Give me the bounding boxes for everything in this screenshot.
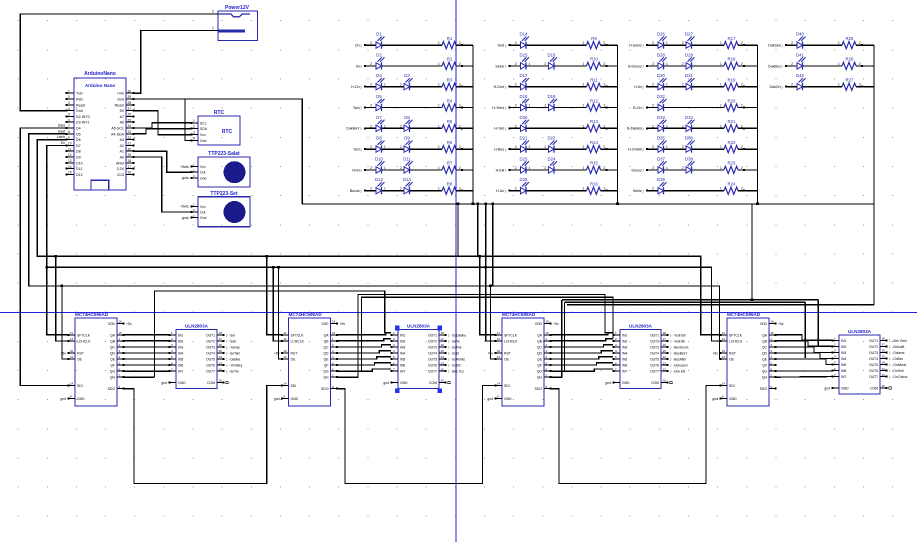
- svg-text:R7: R7: [447, 161, 453, 166]
- svg-text:OUT2: OUT2: [428, 339, 437, 343]
- svg-text:OUT1: OUT1: [206, 333, 215, 337]
- svg-text:D39: D39: [657, 177, 665, 182]
- svg-text:OUT7: OUT7: [650, 370, 659, 374]
- svg-text:SDO: SDO: [760, 387, 768, 391]
- svg-text:R21: R21: [728, 119, 736, 124]
- svg-text:1: 1: [666, 166, 668, 170]
- net label Latch: [57, 135, 65, 139]
- svg-text:1: 1: [68, 89, 70, 93]
- svg-text:R19: R19: [728, 78, 736, 83]
- svg-text:D42: D42: [796, 73, 804, 78]
- svg-text:GND: GND: [178, 381, 186, 385]
- svg-text:SDA: SDA: [200, 127, 208, 131]
- svg-text:GND: GND: [622, 381, 630, 385]
- svg-text:17: 17: [128, 165, 132, 169]
- svg-text:〉: 〉: [642, 43, 645, 48]
- svg-text:ULN2803A: ULN2803A: [185, 324, 209, 329]
- svg-text:12: 12: [663, 367, 667, 371]
- wire D5 bus L4: [29, 134, 720, 359]
- svg-text:A5-SCL: A5-SCL: [111, 127, 124, 131]
- svg-text:D18: D18: [520, 94, 528, 99]
- svg-text:4: 4: [68, 107, 70, 111]
- svg-text:2: 2: [791, 62, 793, 66]
- svg-text:〉: 〉: [505, 126, 508, 131]
- svg-text:D27: D27: [685, 32, 693, 37]
- svg-text:A4-SDA: A4-SDA: [111, 132, 125, 136]
- svg-text:〉: 〉: [505, 64, 508, 69]
- svg-text:14: 14: [722, 382, 726, 386]
- wire SDO#3 to SDI#4: [551, 386, 720, 484]
- svg-text:D32: D32: [657, 94, 665, 99]
- svg-text:SDI: SDI: [77, 384, 83, 388]
- svg-text:B-On: B-On: [633, 106, 641, 110]
- svg-text:D2: D2: [376, 52, 382, 57]
- wire arduino Gnd right rail: [134, 99, 302, 204]
- svg-text:B-Dakika: B-Dakika: [627, 127, 642, 131]
- svg-text:gndc: gndc: [182, 216, 190, 220]
- svg-text:IN7: IN7: [622, 370, 627, 374]
- svg-text:QH: QH: [323, 376, 329, 380]
- svg-text:R5: R5: [447, 119, 453, 124]
- svg-text:H-Dokuz: H-Dokuz: [628, 64, 642, 68]
- svg-text:D31: D31: [685, 73, 693, 78]
- svg-text:1: 1: [438, 62, 440, 66]
- svg-text:〉-OnYedi: 〉-OnYedi: [889, 369, 904, 373]
- svg-text:SFTCLK: SFTCLK: [291, 333, 305, 337]
- wires QA-QG to IN1-IN7 pair3: [551, 333, 613, 372]
- svg-text:1: 1: [583, 166, 585, 170]
- svg-text:16: 16: [663, 343, 667, 347]
- svg-text:IN2: IN2: [178, 339, 183, 343]
- svg-text:R20: R20: [728, 98, 736, 103]
- svg-text:〉-Bes Yuz: 〉-Bes Yuz: [448, 370, 464, 374]
- svg-text:QA: QA: [762, 333, 768, 337]
- svg-text:1: 1: [838, 62, 840, 66]
- svg-text:IN4: IN4: [841, 357, 846, 361]
- svg-text:1: 1: [583, 83, 585, 87]
- svg-text:〉-SoEl: 〉-SoEl: [448, 351, 459, 355]
- svg-text:14: 14: [663, 355, 667, 359]
- svg-text:COM: COM: [429, 381, 437, 385]
- svg-text:〉-SoSili: 〉-SoSili: [448, 364, 461, 368]
- svg-text:1: 1: [666, 41, 668, 45]
- svg-text:1: 1: [212, 26, 214, 30]
- svg-text:15: 15: [219, 349, 223, 353]
- shift register U6 MC74HC595AD #4: [712, 312, 784, 406]
- svg-text:2: 2: [370, 83, 372, 87]
- svg-text:2: 2: [682, 41, 684, 45]
- svg-text:gnd: gnd: [487, 397, 493, 401]
- svg-text:OUT5: OUT5: [206, 358, 215, 362]
- svg-text:Sekiz: Sekiz: [495, 64, 504, 68]
- svg-text:〉: 〉: [360, 126, 363, 131]
- svg-text:10: 10: [68, 142, 72, 146]
- svg-text:3.3V: 3.3V: [117, 167, 125, 171]
- LED group 1 (minutes) D1-D13 R1-R8: [346, 32, 473, 204]
- svg-text:ULN2803A: ULN2803A: [848, 329, 872, 334]
- svg-text:5V: 5V: [120, 109, 125, 113]
- svg-text:〉-OnBes: 〉-OnBes: [889, 357, 903, 361]
- svg-text:A6: A6: [120, 121, 124, 125]
- svg-text:2: 2: [652, 104, 654, 108]
- svg-text:+5vdc: +5vdc: [180, 205, 189, 209]
- svg-text:R16: R16: [590, 182, 598, 187]
- svg-text:D25: D25: [520, 177, 528, 182]
- svg-text:LCHCLK: LCHCLK: [504, 339, 518, 343]
- svg-text:1: 1: [529, 62, 531, 66]
- svg-text:D9: D9: [404, 136, 410, 141]
- svg-text:Yirmi: Yirmi: [352, 168, 360, 172]
- svg-text:D41: D41: [796, 52, 804, 57]
- svg-text:OUT2: OUT2: [206, 339, 215, 343]
- svg-text:〉-SoTre: 〉-SoTre: [226, 370, 239, 374]
- svg-text:D38: D38: [685, 156, 693, 161]
- svg-text:D12: D12: [375, 177, 383, 182]
- svg-text:3: 3: [68, 101, 70, 105]
- svg-text:15: 15: [332, 331, 336, 335]
- svg-text:29: 29: [128, 95, 132, 99]
- svg-text:2: 2: [400, 187, 402, 191]
- svg-text:OUT6: OUT6: [428, 364, 437, 368]
- wires QA-QG to IN1-IN7 pair2: [338, 333, 392, 372]
- wire SFTCLK#2 drop: [266, 255, 282, 335]
- wire D6 bus L1: [37, 140, 720, 335]
- shift register U5 MC74HC595AD #3: [487, 312, 559, 406]
- svg-text:SCL: SCL: [200, 121, 207, 125]
- svg-text:gnd: gnd: [161, 381, 167, 385]
- svg-text:QC: QC: [110, 345, 116, 349]
- wire L7 QG#2 to IN2#3: [338, 297, 614, 371]
- svg-text:2: 2: [515, 41, 517, 45]
- svg-text:D35: D35: [657, 136, 665, 141]
- svg-text:2: 2: [400, 145, 402, 149]
- svg-text:VDD: VDD: [535, 322, 543, 326]
- svg-text:〉: 〉: [360, 43, 363, 48]
- svg-text:D8: D8: [376, 136, 382, 141]
- svg-text:1: 1: [838, 83, 840, 87]
- svg-text:R10: R10: [590, 57, 598, 62]
- svg-text:10: 10: [70, 349, 74, 353]
- svg-text:ArduinoNano: ArduinoNano: [84, 71, 116, 77]
- svg-text:gndc: gndc: [182, 176, 190, 180]
- svg-text:1: 1: [720, 187, 722, 191]
- svg-text:18: 18: [128, 159, 132, 163]
- svg-text:1: 1: [583, 62, 585, 66]
- svg-text:〉: 〉: [781, 64, 784, 69]
- svg-text:Data: Data: [58, 124, 65, 128]
- svg-text:〉: 〉: [360, 64, 363, 69]
- wire group4 common bundle: [567, 204, 874, 305]
- svg-text:Out: Out: [200, 211, 206, 215]
- svg-text:1: 1: [838, 41, 840, 45]
- svg-text:OUT6: OUT6: [650, 364, 659, 368]
- svg-text:QG: QG: [762, 370, 768, 374]
- svg-text:1: 1: [720, 166, 722, 170]
- svg-text:〉: 〉: [781, 43, 784, 48]
- arduino U1 ArduinoNano: [66, 71, 135, 190]
- svg-text:16: 16: [546, 320, 550, 324]
- svg-text:〉: 〉: [505, 188, 508, 193]
- svg-text:〉-BesAltm: 〉-BesAltm: [670, 358, 686, 362]
- svg-text:IN1: IN1: [841, 339, 846, 343]
- svg-text:H-Elli: H-Elli: [496, 168, 505, 172]
- battery BT1 Power12V: [211, 5, 258, 41]
- svg-text:10: 10: [497, 349, 501, 353]
- wires QA-QG to IN1-IN7 pair1: [124, 335, 169, 371]
- svg-text:IN5: IN5: [841, 363, 846, 367]
- wire OE#1 drop: [61, 285, 68, 359]
- wire OE#2 drop: [277, 266, 281, 359]
- svg-text:D17: D17: [520, 73, 528, 78]
- svg-text:QB: QB: [762, 339, 768, 343]
- svg-text:COM: COM: [651, 381, 659, 385]
- svg-text:ULN2803A: ULN2803A: [407, 324, 431, 329]
- wire group2 rail tap D: [492, 204, 494, 286]
- crosshair horizontal: [0, 312, 917, 314]
- svg-text:QC: QC: [537, 345, 543, 349]
- svg-text:OUT5: OUT5: [869, 363, 878, 367]
- svg-text:COM: COM: [207, 381, 215, 385]
- svg-text:Gnd: Gnd: [200, 176, 207, 180]
- svg-text:13: 13: [663, 361, 667, 365]
- svg-text:15: 15: [882, 355, 886, 359]
- svg-text:QA: QA: [324, 333, 330, 337]
- svg-text:10: 10: [441, 379, 445, 383]
- svg-text:〉-SoTam: 〉-SoTam: [226, 351, 241, 355]
- svg-text:D4: D4: [376, 73, 382, 78]
- svg-text:2: 2: [791, 41, 793, 45]
- svg-text:2: 2: [682, 83, 684, 87]
- svg-text:Arduino Nano: Arduino Nano: [85, 83, 116, 88]
- svg-text:OUT1: OUT1: [428, 333, 437, 337]
- svg-text:OUT5: OUT5: [428, 358, 437, 362]
- svg-text:gnd: gnd: [383, 381, 389, 385]
- svg-text:IN1: IN1: [178, 333, 183, 337]
- wire power +12V to arduino +Vin: [134, 31, 211, 94]
- svg-text:11: 11: [497, 331, 500, 335]
- svg-text:IN2: IN2: [400, 339, 405, 343]
- svg-text:14: 14: [70, 382, 74, 386]
- svg-text:30: 30: [128, 89, 132, 93]
- svg-text:D10: D10: [375, 156, 383, 161]
- svg-text:2: 2: [400, 166, 402, 170]
- svg-text:4: 4: [193, 137, 195, 141]
- svg-text:12: 12: [497, 337, 501, 341]
- svg-text:16: 16: [219, 343, 223, 347]
- svg-text:〉-Sol: 〉-Sol: [226, 333, 235, 337]
- svg-text:RST: RST: [504, 352, 511, 356]
- svg-text:D13: D13: [117, 173, 124, 177]
- svg-text:1: 1: [583, 124, 585, 128]
- svg-text:2: 2: [652, 166, 654, 170]
- svg-text:SDI: SDI: [504, 384, 510, 388]
- svg-text:R26: R26: [846, 57, 854, 62]
- svg-text:IN1: IN1: [400, 333, 405, 337]
- svg-text:〉: 〉: [505, 168, 508, 173]
- svg-text:2: 2: [515, 166, 517, 170]
- svg-text:7: 7: [68, 124, 70, 128]
- svg-text:1: 1: [438, 104, 440, 108]
- svg-text:OE: OE: [504, 358, 510, 362]
- svg-text:VDD: VDD: [108, 322, 116, 326]
- svg-text:28: 28: [128, 101, 132, 105]
- net label Saat: [58, 129, 65, 133]
- svg-text:17: 17: [219, 337, 223, 341]
- svg-text:Gnd: Gnd: [76, 109, 83, 113]
- shift register U4 MC74HC595AD #2: [274, 312, 346, 406]
- svg-text:D14: D14: [520, 32, 528, 37]
- svg-text:〉-BesBesY: 〉-BesBesY: [670, 351, 688, 355]
- svg-text:LCHCLK: LCHCLK: [77, 339, 91, 343]
- svg-text:1: 1: [720, 62, 722, 66]
- svg-text:OUT7: OUT7: [206, 370, 215, 374]
- svg-text:Dokuz: Dokuz: [632, 168, 642, 172]
- svg-text:17: 17: [882, 343, 886, 347]
- svg-text:R12: R12: [590, 98, 598, 103]
- svg-text:TTP223-Salat: TTP223-Salat: [208, 151, 240, 157]
- svg-text:R15: R15: [590, 161, 598, 166]
- svg-text:D11: D11: [76, 167, 82, 171]
- svg-text:gnd: gnd: [824, 386, 830, 390]
- svg-text:OUT1: OUT1: [650, 333, 659, 337]
- svg-text:2: 2: [370, 62, 372, 66]
- svg-text:16: 16: [771, 320, 775, 324]
- svg-text:1: 1: [438, 41, 440, 45]
- svg-text:1: 1: [384, 83, 386, 87]
- svg-text:Gnd: Gnd: [200, 139, 207, 143]
- svg-text:Tam: Tam: [353, 106, 360, 110]
- svg-text:18: 18: [219, 331, 223, 335]
- svg-text:13: 13: [722, 355, 726, 359]
- svg-text:17: 17: [663, 337, 667, 341]
- svg-text:12: 12: [882, 373, 886, 377]
- wire RTC gnd drop: [185, 99, 191, 141]
- svg-text:11: 11: [284, 331, 287, 335]
- svg-text:16: 16: [882, 349, 886, 353]
- svg-text:IN7: IN7: [178, 370, 183, 374]
- svg-text:1: 1: [666, 124, 668, 128]
- svg-text:OUT4: OUT4: [869, 357, 878, 361]
- svg-text:OUT4: OUT4: [206, 351, 215, 355]
- svg-text:D21: D21: [520, 136, 528, 141]
- svg-text:1: 1: [720, 83, 722, 87]
- wire D4 to SDI 595#1: [20, 128, 68, 386]
- svg-text:D8: D8: [76, 150, 81, 154]
- svg-text:D28: D28: [657, 52, 665, 57]
- svg-text:〉-Yedi Elli: 〉-Yedi Elli: [670, 333, 686, 337]
- svg-text:D20: D20: [520, 115, 528, 120]
- svg-text:OUT6: OUT6: [869, 369, 878, 373]
- svg-text:GND: GND: [77, 397, 85, 401]
- svg-text:IN6: IN6: [841, 369, 846, 373]
- svg-text:10: 10: [663, 379, 667, 383]
- svg-text:IN1: IN1: [622, 333, 627, 337]
- svg-text:21: 21: [128, 142, 132, 146]
- wires QA-QH to IN1-IN7 pair4: [776, 335, 832, 377]
- svg-text:D24: D24: [548, 156, 556, 161]
- svg-text:IN4: IN4: [400, 351, 405, 355]
- svg-text:OE: OE: [291, 358, 297, 362]
- svg-text:〉-Onlarca: 〉-Onlarca: [889, 351, 905, 355]
- svg-text:1: 1: [720, 41, 722, 45]
- svg-text:IN6: IN6: [622, 364, 627, 368]
- svg-text:R4: R4: [447, 98, 453, 103]
- svg-text:〉-OnAltmis: 〉-OnAltmis: [889, 363, 907, 367]
- svg-text:1: 1: [384, 187, 386, 191]
- svg-text:OUT7: OUT7: [428, 370, 437, 374]
- svg-text:QC: QC: [762, 345, 768, 349]
- svg-text:14: 14: [219, 355, 223, 359]
- svg-text:En: En: [61, 141, 65, 145]
- svg-text:1: 1: [438, 145, 440, 149]
- svg-text:D5: D5: [376, 94, 382, 99]
- svg-text:QD: QD: [110, 351, 116, 355]
- svg-text:R1: R1: [447, 36, 453, 41]
- svg-text:15: 15: [119, 331, 123, 335]
- svg-text:2: 2: [652, 187, 654, 191]
- svg-text:VDD: VDD: [760, 322, 768, 326]
- svg-text:2: 2: [370, 104, 372, 108]
- svg-text:R24: R24: [728, 182, 736, 187]
- svg-text:9: 9: [68, 136, 70, 140]
- svg-text:D16: D16: [548, 52, 556, 57]
- svg-text:R3: R3: [447, 78, 453, 83]
- svg-text:IN3: IN3: [622, 345, 627, 349]
- svg-text:2: 2: [515, 124, 517, 128]
- wire group2 rail tap A: [477, 204, 479, 256]
- svg-text:QA: QA: [110, 333, 116, 337]
- svg-text:LCHCLK: LCHCLK: [291, 339, 305, 343]
- svg-text:1: 1: [438, 187, 440, 191]
- svg-text:Gnd: Gnd: [117, 98, 124, 102]
- svg-text:12: 12: [722, 337, 726, 341]
- svg-text:D23: D23: [520, 156, 528, 161]
- svg-text:〉-BesOnum: 〉-BesOnum: [670, 345, 689, 349]
- svg-text:〉-SoPek: 〉-SoPek: [448, 345, 462, 349]
- svg-text:D6: D6: [404, 115, 410, 120]
- svg-text:H-On: H-On: [351, 85, 360, 89]
- svg-text:Power12V: Power12V: [225, 5, 250, 11]
- wire 5V to RTC Vcc: [134, 111, 191, 135]
- svg-text:OE: OE: [729, 358, 735, 362]
- svg-text:QF: QF: [762, 364, 767, 368]
- svg-text:〉-Dok Elli: 〉-Dok Elli: [670, 370, 685, 374]
- svg-text:SDO: SDO: [108, 387, 116, 391]
- svg-text:1: 1: [438, 83, 440, 87]
- wire LCHCLK#3 drop: [484, 266, 495, 341]
- svg-text:QF: QF: [110, 364, 115, 368]
- svg-text:1: 1: [438, 124, 440, 128]
- svg-text:〉-Dakika: 〉-Dakika: [226, 358, 240, 362]
- svg-text:OUT4: OUT4: [650, 351, 659, 355]
- svg-text:TxD: TxD: [76, 92, 83, 96]
- svg-text:On: On: [355, 44, 360, 48]
- svg-text:QH: QH: [762, 376, 768, 380]
- svg-text:QG: QG: [323, 370, 329, 374]
- svg-text:1: 1: [666, 83, 668, 87]
- svg-text:15: 15: [771, 331, 775, 335]
- svg-text:RTC: RTC: [222, 129, 233, 135]
- svg-text:GND: GND: [400, 381, 408, 385]
- svg-text:OUT2: OUT2: [650, 339, 659, 343]
- svg-text:DakSek: DakSek: [768, 44, 781, 48]
- wire D7 bus L2: [47, 145, 68, 334]
- svg-text:2: 2: [682, 166, 684, 170]
- svg-text:1: 1: [720, 104, 722, 108]
- svg-text:D22: D22: [548, 136, 556, 141]
- svg-text:2: 2: [68, 95, 70, 99]
- svg-text:IN4: IN4: [622, 351, 627, 355]
